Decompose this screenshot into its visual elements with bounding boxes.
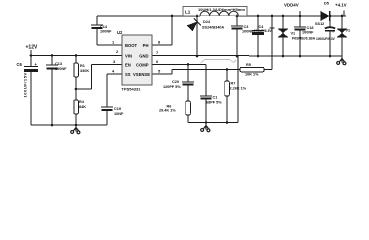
svg-text:D24: D24: [203, 20, 211, 24]
svg-text:+4.1V: +4.1V: [335, 2, 347, 7]
svg-text:VIN: VIN: [125, 54, 132, 59]
svg-text:R5: R5: [246, 63, 251, 67]
svg-text:C18: C18: [307, 26, 314, 30]
svg-text:84K: 84K: [79, 105, 86, 109]
svg-text:C19: C19: [114, 107, 121, 111]
svg-text:VSENSE: VSENSE: [133, 72, 150, 77]
svg-text:120PF 5%: 120PF 5%: [163, 85, 181, 89]
svg-text:29.4K 1%: 29.4K 1%: [159, 109, 176, 113]
svg-text:GND: GND: [139, 54, 148, 59]
svg-text:U2: U2: [117, 30, 123, 35]
svg-text:SS12: SS12: [315, 22, 324, 26]
svg-text:100NF: 100NF: [242, 30, 254, 34]
svg-text:C20: C20: [172, 80, 179, 84]
svg-text:VDD4V: VDD4V: [284, 2, 299, 7]
svg-text:470UF/6.3V: 470UF/6.3V: [254, 29, 273, 33]
svg-text:100NF: 100NF: [55, 67, 67, 71]
svg-text:COMP: COMP: [136, 63, 149, 68]
svg-text:100NF: 100NF: [100, 30, 112, 34]
svg-text:C6: C6: [17, 62, 23, 67]
svg-text:C3: C3: [244, 25, 249, 29]
svg-text:PH: PH: [143, 43, 149, 48]
svg-text:R7: R7: [231, 82, 236, 86]
svg-text:10NF: 10NF: [114, 112, 124, 116]
svg-text:C1: C1: [213, 96, 218, 100]
svg-text:+: +: [332, 29, 335, 34]
svg-text:+12V: +12V: [26, 45, 38, 51]
svg-text:BOOT: BOOT: [125, 43, 138, 48]
svg-text:EN: EN: [125, 63, 131, 68]
svg-text:330K: 330K: [80, 69, 89, 73]
svg-text:1000UF/6.3V: 1000UF/6.3V: [316, 37, 336, 41]
svg-text:100UF/15V: 100UF/15V: [23, 72, 28, 97]
svg-text:R1: R1: [80, 64, 85, 68]
svg-text:100NF: 100NF: [302, 31, 314, 35]
svg-text:SS: SS: [125, 72, 131, 77]
svg-text:P6SMBJ6.1BA: P6SMBJ6.1BA: [292, 37, 316, 41]
svg-text:V1: V1: [291, 32, 296, 36]
svg-text:TPS54331: TPS54331: [122, 87, 142, 92]
svg-text:V1: V1: [346, 29, 351, 33]
svg-text:2.26K 1%: 2.26K 1%: [230, 87, 247, 91]
svg-text:C13: C13: [55, 62, 62, 66]
svg-text:C14: C14: [100, 25, 108, 29]
svg-text:68PF 5%: 68PF 5%: [206, 101, 222, 105]
svg-text:10K 1%: 10K 1%: [245, 73, 259, 77]
svg-text:L1: L1: [185, 10, 191, 15]
svg-text:SS24/B340A: SS24/B340A: [202, 26, 224, 30]
svg-text:D5: D5: [324, 2, 329, 6]
svg-text:10UH/1.3A/D6mm*H5mm: 10UH/1.3A/D6mm*H5mm: [198, 7, 245, 12]
